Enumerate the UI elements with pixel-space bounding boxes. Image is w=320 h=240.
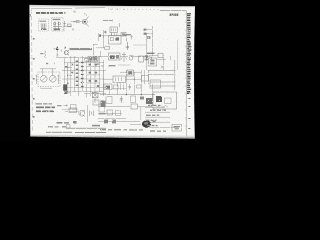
shielded cable top edge bbox=[70, 47, 93, 49]
transistor Q1 bbox=[82, 17, 88, 27]
legend table line 2 bbox=[145, 111, 170, 113]
wire to transistor Q1 bbox=[71, 21, 82, 23]
electrolytic capacitor C20 bbox=[93, 100, 99, 105]
node with dot bbox=[170, 56, 172, 60]
antenna lead wire bbox=[56, 50, 58, 53]
resistor R22 bbox=[106, 97, 112, 104]
T6 X mark bbox=[92, 92, 98, 97]
volume control VR1 bbox=[139, 56, 144, 62]
IF transformer T5 bbox=[113, 76, 126, 83]
wire to Q5 bbox=[65, 111, 79, 113]
capacitor C22 bbox=[121, 84, 124, 91]
wire: bias line bbox=[133, 44, 146, 46]
output transformer T7 blob bbox=[156, 96, 162, 102]
U1 top pins bbox=[112, 33, 118, 36]
stamp text bbox=[174, 126, 181, 127]
switch matrix vertical wires bbox=[64, 56, 103, 96]
detector stage text bbox=[147, 53, 155, 54]
wire verticals E bbox=[103, 70, 152, 106]
capacitor C23 vertical bbox=[120, 96, 123, 103]
R20 inner blob bbox=[106, 86, 110, 89]
wire: Q5 collector vertical bbox=[87, 105, 89, 122]
transistor Q3 bbox=[121, 52, 127, 62]
Q2 base mark bbox=[64, 47, 66, 49]
output stage box (tall) bbox=[153, 92, 177, 109]
marks right of C30 bbox=[153, 121, 156, 123]
resistor R2 bbox=[76, 20, 79, 22]
capacitor C12 + lead bbox=[126, 42, 129, 50]
capacitor stack column 1 bbox=[76, 61, 79, 86]
wire to right bbox=[138, 106, 153, 108]
wire: vertical left of U1 bbox=[97, 33, 99, 41]
resistor R32 bbox=[112, 120, 116, 124]
resistor R10 bbox=[94, 57, 99, 60]
wire: vertical bbox=[94, 98, 96, 103]
resistor R24 bbox=[137, 85, 142, 88]
L2 label text bbox=[53, 19, 62, 20]
wire: vertical riser bbox=[140, 107, 142, 120]
wire: vertical bbox=[162, 55, 164, 70]
connector box top bbox=[149, 58, 157, 66]
paper speckle texture bbox=[29, 5, 195, 139]
box R30 bbox=[107, 110, 113, 115]
D2 lead marks bbox=[129, 54, 134, 56]
faint inner frame line bbox=[177, 40, 179, 70]
wire lower bbox=[98, 118, 126, 120]
IC U1 (converter) bbox=[109, 36, 122, 45]
frame: top border right segment bbox=[160, 9, 186, 12]
VC1 stator leads bbox=[43, 69, 53, 76]
node dot bbox=[134, 79, 135, 80]
bottom oscillator circuit: wires bbox=[98, 106, 130, 108]
wire: AGC line bbox=[56, 56, 95, 58]
junction dots on bus bbox=[67, 67, 68, 68]
value label row 2 bbox=[108, 65, 116, 66]
Q1 body dot bbox=[84, 21, 86, 23]
ferrite antenna mark bbox=[56, 46, 59, 50]
X junction mark bbox=[161, 66, 164, 69]
frame: top border dotted continuation bbox=[108, 8, 160, 11]
L1 core mark bbox=[41, 29, 47, 30]
frame: right border line bbox=[185, 11, 187, 137]
legend table line 4 bbox=[145, 121, 170, 123]
C20 polarity blob bbox=[101, 101, 106, 108]
T2 winding marks bbox=[112, 28, 116, 31]
ground symbol bbox=[60, 50, 62, 51]
wire: right feed vertical bbox=[152, 26, 154, 56]
wire: long audio bus bbox=[100, 94, 155, 96]
wire: across top bbox=[120, 71, 141, 73]
value label row bbox=[123, 34, 132, 35]
legend table line 3 bbox=[145, 116, 170, 118]
wire: into T5 bbox=[103, 78, 141, 80]
battery connector box bbox=[150, 80, 161, 88]
trimmer marks right bbox=[58, 75, 60, 85]
L1 label text bbox=[40, 21, 47, 22]
oscillator coil unit L2 (dashed box) bbox=[52, 18, 64, 32]
legend table line 5 bbox=[145, 127, 179, 129]
junction dot bbox=[141, 94, 142, 95]
arrow mark bbox=[64, 105, 68, 107]
wire: bus under T2 bbox=[99, 35, 127, 37]
Q1 collector dots bbox=[84, 13, 85, 14]
capacitor C25 bbox=[128, 84, 131, 90]
bottom text dashes row bbox=[100, 129, 143, 131]
capacitor C7 bbox=[144, 29, 147, 31]
box RT1 bbox=[131, 104, 138, 109]
box bottom-left cluster bbox=[99, 104, 105, 112]
label box S1 bbox=[71, 105, 77, 110]
wire: stub bbox=[118, 64, 130, 66]
resistor R9 bbox=[85, 59, 89, 62]
resistor R31 bbox=[104, 120, 108, 124]
L2 trimmer capacitor icons bbox=[53, 22, 62, 30]
capacitor C3 bbox=[72, 29, 74, 31]
right border tick marks bbox=[185, 14, 187, 126]
tick mark bbox=[54, 63, 56, 65]
wire: stub top bbox=[93, 43, 98, 45]
title text: AM RADIO SCHEMATIC DIAGRAM bbox=[36, 12, 63, 14]
marks right bbox=[92, 125, 100, 127]
bottom text dashes right bbox=[150, 130, 166, 131]
oscillator transformer T3 bbox=[63, 84, 67, 90]
transistor Q2 bbox=[64, 50, 69, 55]
U1 inner elements bbox=[110, 37, 113, 40]
faint label bbox=[57, 105, 62, 106]
wire: long rule (mid) bbox=[66, 127, 106, 129]
zigzag marks bbox=[156, 106, 169, 108]
resistor network right bbox=[142, 75, 149, 81]
schematic sheet (white page) bbox=[29, 5, 195, 139]
antenna lead dash bbox=[54, 48, 56, 50]
shielded cable run bbox=[70, 48, 93, 50]
L1 windings bbox=[41, 24, 48, 30]
wire: AGC right bbox=[145, 55, 158, 57]
note text block line 1 bbox=[36, 103, 53, 104]
capacitor C11 bbox=[130, 35, 132, 39]
output stage parts bbox=[165, 98, 172, 104]
stamp box bbox=[172, 125, 182, 132]
capacitor stack column 2 bbox=[81, 62, 84, 87]
frame: left border dash-dot line bbox=[31, 10, 34, 132]
small parts mid bbox=[114, 85, 119, 89]
sheet number SM-54 bbox=[170, 14, 179, 17]
wire mid bbox=[104, 113, 122, 115]
node dot bbox=[73, 21, 74, 22]
capacitor C15 bbox=[150, 57, 152, 61]
wire: main left bus vertical bbox=[67, 63, 69, 92]
Q5 base resistor box bbox=[69, 108, 77, 113]
note text block line 3 bbox=[36, 110, 54, 112]
label marks under bus bbox=[97, 64, 100, 65]
L2 core mark bbox=[53, 29, 60, 31]
resistor R11 bbox=[105, 46, 110, 49]
terminal strip wires right bbox=[148, 71, 176, 86]
wire: long IF bus bbox=[95, 56, 150, 58]
IF transformer T4 bbox=[109, 53, 121, 60]
T4 secondary mark bbox=[116, 55, 119, 59]
black scan background bbox=[0, 0, 200, 141]
capacitor C6 bbox=[119, 23, 121, 27]
wire: riser bbox=[108, 90, 110, 95]
R5 inner mark bbox=[122, 33, 125, 34]
legend text 1 bbox=[148, 105, 160, 106]
antenna coil unit L1 (dashed box) bbox=[39, 19, 49, 31]
right margin vertical title text column bbox=[187, 13, 191, 129]
battery B1 symbol bbox=[90, 111, 94, 117]
wire at 124.5 bbox=[130, 124, 141, 126]
connector inner marks bbox=[150, 60, 155, 62]
VC1 top wire bbox=[40, 68, 56, 70]
resistor R14 bbox=[158, 53, 163, 58]
legend table line 1 bbox=[145, 106, 165, 108]
resistor R7 stub bbox=[146, 29, 153, 31]
wire lower 2 bbox=[98, 121, 140, 123]
transformer T3 lower lug bbox=[64, 91, 67, 94]
wire: long vertical right bbox=[146, 33, 148, 70]
legend text 4 bbox=[146, 120, 158, 121]
capacitor C14 bbox=[146, 57, 148, 61]
switch label text row bbox=[57, 121, 77, 124]
IF amp block top bbox=[88, 56, 98, 62]
IF amp inner marks bbox=[89, 57, 92, 60]
component cluster bbox=[131, 96, 136, 103]
wire: stub bbox=[157, 59, 166, 61]
capacitor C1 bbox=[63, 21, 66, 27]
right bus vertical bbox=[174, 60, 176, 90]
capacitor C8 bbox=[144, 33, 147, 35]
electrolytic capacitor C30 (dark) bbox=[142, 120, 151, 127]
diode D1 bbox=[147, 36, 150, 39]
capacitor C2 bbox=[63, 28, 65, 32]
B1 inner blob bbox=[128, 71, 132, 74]
T5 winding marks bbox=[116, 77, 122, 81]
wire: under tuning gang bbox=[41, 87, 53, 89]
driver transformer T6 bbox=[92, 92, 98, 97]
junction blob bbox=[99, 34, 101, 36]
capacitor C9 bbox=[56, 53, 58, 58]
wire from L2 to R1 bbox=[63, 25, 72, 27]
page edge shadow bottom bbox=[30, 135, 194, 138]
crystal X1 squiggle bbox=[45, 51, 46, 59]
T4 core blob bbox=[110, 55, 115, 58]
audio stage: box B1 bbox=[127, 70, 134, 76]
resistor R5 cluster bbox=[121, 32, 126, 36]
wire: vertical drop bbox=[103, 30, 105, 38]
wire: vertical drop bbox=[102, 36, 104, 48]
wire: bottom grid stub bbox=[64, 92, 70, 94]
T2 pin wires bbox=[112, 33, 115, 36]
wire: bottom stub bbox=[62, 108, 78, 110]
wire: mid horizontal bbox=[96, 47, 105, 49]
capacitor C10 bbox=[126, 37, 128, 41]
VC1 section 1 bbox=[41, 76, 48, 83]
VC1 section 2 bbox=[50, 76, 57, 83]
text label bbox=[99, 113, 106, 114]
node mark bbox=[111, 19, 113, 22]
wire: stub bbox=[112, 88, 126, 90]
wire: vertical bbox=[99, 51, 101, 57]
detector diode D2 bbox=[129, 56, 133, 60]
oscillator transistor Q5 bbox=[79, 110, 85, 117]
frame: top border dash-dot line bbox=[31, 8, 105, 9]
tuning gang capacitor VC1 (dashed box) bbox=[38, 72, 60, 87]
VR1 wiper marks bbox=[145, 55, 148, 57]
scan gradient bottom edge bbox=[30, 134, 195, 139]
C30 highlight bbox=[144, 122, 148, 125]
long bottom rule left bbox=[46, 131, 106, 133]
R10 inner mark bbox=[94, 58, 97, 60]
wire: vertical bbox=[85, 92, 87, 98]
note mark right of title bbox=[64, 12, 66, 13]
component marks bbox=[116, 111, 121, 116]
legend text 3 bbox=[146, 115, 159, 116]
left border row labels bbox=[30, 14, 35, 117]
X1 label bbox=[40, 53, 43, 54]
band switch contacts (component blobs) bbox=[65, 64, 99, 87]
resistor R1 bbox=[68, 24, 72, 27]
resistor R8 stub bbox=[146, 33, 153, 35]
legend text 5 bbox=[147, 125, 158, 126]
switch matrix horizontal wires bbox=[62, 63, 106, 92]
capacitor C4 mark bbox=[46, 63, 48, 64]
junction dot bbox=[126, 94, 127, 95]
power filter box C24 bbox=[146, 98, 153, 104]
trimmer marks left bbox=[36, 75, 38, 85]
small marks bbox=[140, 97, 144, 100]
stub wires from bus bbox=[68, 67, 72, 75]
dots above dashed border bbox=[111, 9, 112, 10]
IF transformer T2 bbox=[110, 27, 118, 33]
note text block line 2 bbox=[36, 107, 55, 109]
capacitor C5 bbox=[104, 31, 107, 34]
resistor R20 box bbox=[104, 84, 112, 90]
scan gradient top edge bbox=[29, 5, 195, 8]
wire: vertical at tuning cap bbox=[93, 44, 95, 60]
wire: top mid horizontal bbox=[103, 20, 113, 22]
terminal box S1b bbox=[67, 125, 71, 129]
wire: horizontal at 93.5 bbox=[84, 93, 106, 95]
legend text 2 bbox=[150, 110, 166, 111]
text dashes near S1 bbox=[48, 126, 66, 127]
